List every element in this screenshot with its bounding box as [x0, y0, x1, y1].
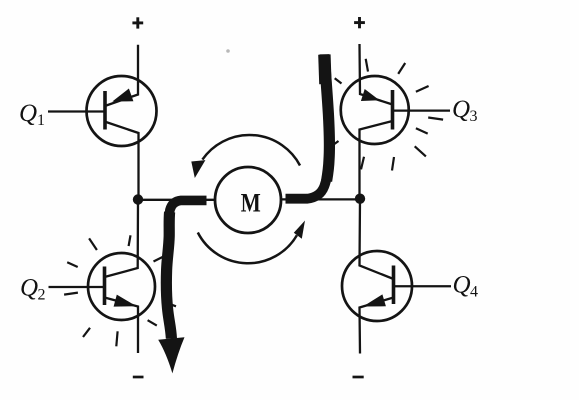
- wire Q2 base: [49, 286, 105, 288]
- wire junction to Q4 collector: [360, 199, 394, 279]
- Q4 emitter lead: [360, 298, 394, 354]
- Q2 emitter lead: [105, 298, 139, 354]
- plus terminal left: [132, 17, 143, 28]
- wire right supply to Q3 emitter: [360, 44, 393, 105]
- Q3 base bar: [391, 90, 395, 130]
- svg-text:3: 3: [470, 108, 478, 125]
- Q2 base bar: [103, 267, 107, 306]
- current path arrowhead: [158, 337, 184, 373]
- minus terminal left: [133, 376, 144, 379]
- svg-text:1: 1: [37, 112, 45, 129]
- current path left branch (thick): [166, 200, 206, 338]
- transistor Q3 (PNP): [341, 76, 409, 195]
- glow rays around Q3: [330, 59, 444, 171]
- node A (left junction): [133, 194, 143, 204]
- Q1 base bar: [103, 91, 107, 130]
- Q4 body circle: [342, 251, 412, 321]
- Q3 emitter arrow: [361, 89, 380, 101]
- Q2 body circle: [88, 253, 155, 320]
- svg-text:M: M: [241, 188, 261, 218]
- svg-text:2: 2: [38, 287, 46, 304]
- Q1 collector lead: [105, 122, 139, 196]
- glow rays around Q2: [64, 235, 176, 346]
- rotation arrow upper arc: [191, 135, 300, 178]
- wire node B to motor: [281, 198, 360, 200]
- Q1 body circle: [87, 76, 157, 146]
- current path right branch (thick): [286, 54, 330, 199]
- wire Q3 base: [393, 109, 451, 111]
- svg-text:Q: Q: [20, 275, 38, 302]
- Q2 emitter arrow: [114, 295, 137, 307]
- wire Q1 base: [48, 110, 105, 112]
- transistor Q2 (NPN): [88, 253, 155, 353]
- svg-text:4: 4: [470, 284, 478, 301]
- Q4 emitter arrow: [363, 294, 386, 306]
- faint speck: [226, 49, 230, 53]
- node B (right junction): [355, 194, 365, 204]
- Q3 collector lead: [360, 121, 393, 195]
- Q1 emitter arrow: [112, 89, 133, 102]
- transistor Q4 (NPN): [342, 251, 412, 354]
- Q3 body circle: [341, 76, 409, 144]
- svg-text:Q: Q: [453, 272, 471, 299]
- wire junction to Q2 collector: [105, 200, 139, 278]
- wire node A to motor: [138, 199, 215, 201]
- motor body circle: [215, 167, 281, 233]
- wire left supply to Q1 emitter: [105, 45, 138, 106]
- rotation arrow lower arc: [198, 221, 305, 264]
- transistor Q1 (PNP): [87, 76, 157, 195]
- minus terminal right: [353, 376, 364, 379]
- wire Q4 base: [394, 285, 452, 287]
- motor M: [215, 167, 281, 233]
- svg-text:Q: Q: [452, 96, 470, 123]
- svg-text:Q: Q: [19, 100, 37, 127]
- plus terminal right: [354, 17, 365, 28]
- Q4 base bar: [392, 266, 396, 305]
